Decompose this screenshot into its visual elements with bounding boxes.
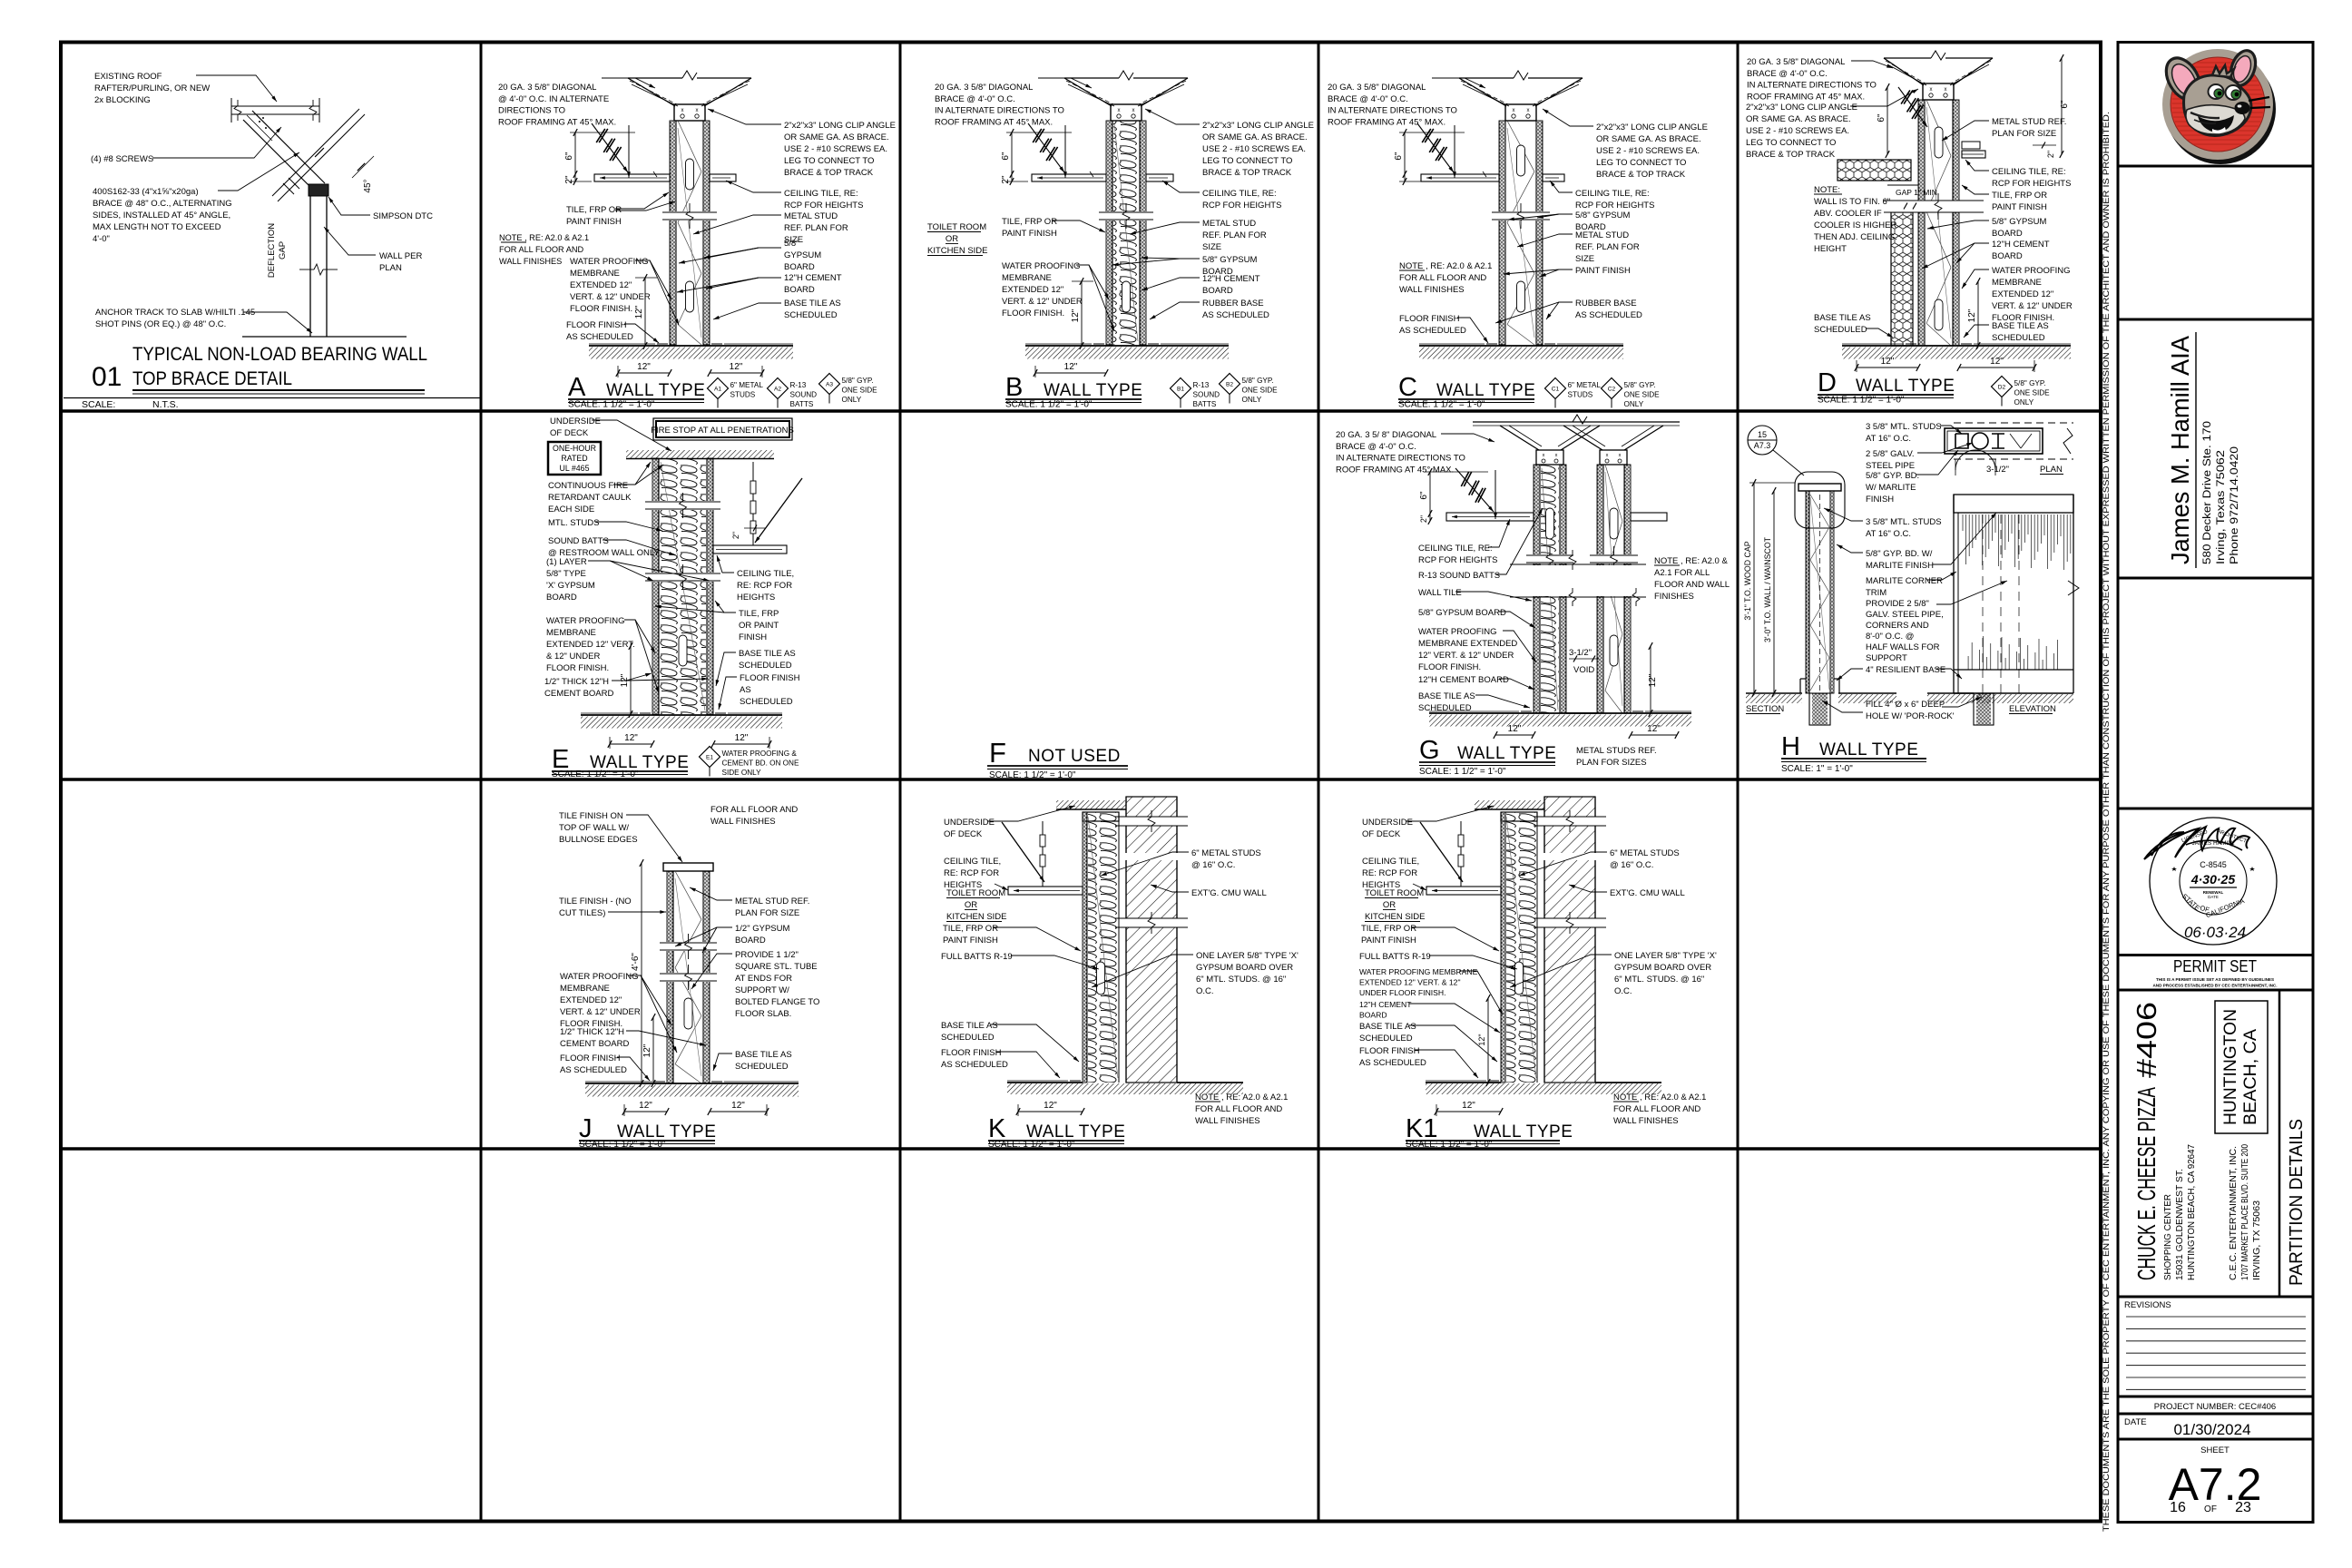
svg-text:EXISTING ROOF: EXISTING ROOF [94, 72, 162, 82]
svg-text:x: x [1513, 108, 1515, 113]
svg-text:MTL. STUDS: MTL. STUDS [548, 518, 599, 528]
svg-text:OF DECK: OF DECK [944, 829, 983, 839]
svg-text:DATE: DATE [2208, 895, 2219, 899]
svg-text:FINISH: FINISH [739, 632, 767, 642]
svg-text:12": 12" [620, 673, 630, 687]
svg-text:Irving, Texas 75062: Irving, Texas 75062 [2216, 450, 2227, 564]
svg-text:FLOOR FINISH.: FLOOR FINISH. [1002, 309, 1064, 318]
svg-text:NOTE , RE: A2.0 & A2.1: NOTE , RE: A2.0 & A2.1 [1613, 1093, 1706, 1102]
svg-text:LEG TO CONNECT TO: LEG TO CONNECT TO [784, 156, 874, 166]
svg-text:OR: OR [946, 234, 958, 244]
svg-text:BASE TILE AS: BASE TILE AS [735, 1050, 792, 1060]
svg-text:SCALE: 1 1/2" = 1'-0": SCALE: 1 1/2" = 1'-0" [1406, 1140, 1493, 1150]
svg-text:PLAN FOR SIZE: PLAN FOR SIZE [1992, 129, 2056, 139]
svg-text:TILE, FRP OR: TILE, FRP OR [1992, 191, 2047, 201]
svg-text:FOR ALL FLOOR AND: FOR ALL FLOOR AND [1613, 1104, 1700, 1114]
svg-text:G: G [1419, 736, 1440, 765]
svg-text:ROOF FRAMING AT 45° MAX.: ROOF FRAMING AT 45° MAX. [498, 117, 616, 127]
svg-text:USE 2 - #10 SCREWS EA.: USE 2 - #10 SCREWS EA. [784, 144, 887, 154]
svg-text:400S162-33 (4"x1⅝"x20ga): 400S162-33 (4"x1⅝"x20ga) [93, 187, 199, 197]
svg-text:CORNERS AND: CORNERS AND [1866, 621, 1929, 631]
svg-text:SOUND: SOUND [790, 391, 818, 399]
svg-text:& 12" UNDER: & 12" UNDER [546, 652, 600, 661]
svg-text:ONLY: ONLY [2014, 398, 2034, 407]
svg-text:BRACE @ 4'-0" O.C.: BRACE @ 4'-0" O.C. [1336, 442, 1416, 452]
svg-text:A1: A1 [714, 387, 721, 393]
svg-text:SHOT PINS (OR EQ.) @ 48" O.C.: SHOT PINS (OR EQ.) @ 48" O.C. [95, 319, 226, 329]
svg-text:12": 12" [731, 1101, 745, 1111]
svg-text:GYPSUM BOARD OVER: GYPSUM BOARD OVER [1614, 963, 1711, 973]
svg-text:NOT USED: NOT USED [1028, 747, 1121, 766]
svg-text:BOARD: BOARD [546, 593, 577, 603]
svg-text:AT 16" O.C.: AT 16" O.C. [1866, 529, 1911, 539]
svg-text:20 GA. 3 5/ 8" DIAGONAL: 20 GA. 3 5/ 8" DIAGONAL [1336, 430, 1436, 440]
svg-text:12": 12" [1648, 673, 1658, 687]
svg-text:#406: #406 [2131, 1002, 2162, 1078]
svg-text:ROOF FRAMING AT 45° MAX.: ROOF FRAMING AT 45° MAX. [1747, 92, 1865, 102]
svg-text:METAL STUDS REF.: METAL STUDS REF. [1576, 746, 1657, 756]
svg-text:EXT'G. CMU WALL: EXT'G. CMU WALL [1191, 888, 1267, 898]
svg-text:WALL IS TO FIN. 6": WALL IS TO FIN. 6" [1814, 197, 1890, 207]
svg-text:RETARDANT CAULK: RETARDANT CAULK [548, 493, 632, 503]
svg-text:WATER PROOFING: WATER PROOFING [560, 972, 639, 982]
svg-text:RE: RCP FOR: RE: RCP FOR [1362, 868, 1417, 878]
svg-text:6": 6" [1419, 491, 1429, 500]
svg-text:RCP FOR HEIGHTS: RCP FOR HEIGHTS [1575, 201, 1654, 211]
svg-text:USE 2 - #10 SCREWS EA.: USE 2 - #10 SCREWS EA. [1596, 146, 1700, 156]
svg-text:BASE TILE AS: BASE TILE AS [1359, 1022, 1416, 1032]
svg-text:ONLY: ONLY [1242, 396, 1262, 404]
svg-text:TILE, FRP: TILE, FRP [739, 609, 779, 619]
svg-text:SCHEDULED: SCHEDULED [1814, 325, 1867, 335]
svg-text:SCALE: 1 1/2" = 1'-0": SCALE: 1 1/2" = 1'-0" [988, 1140, 1075, 1150]
svg-text:CEILING TILE, RE:: CEILING TILE, RE: [784, 189, 858, 199]
svg-text:VERT. & 12" UNDER: VERT. & 12" UNDER [1002, 297, 1083, 307]
svg-text:R-13: R-13 [1193, 381, 1210, 389]
svg-text:SOUND: SOUND [1193, 391, 1220, 399]
svg-text:BOARD: BOARD [1992, 229, 2023, 239]
svg-text:FILL 4" Ø x 6" DEEP: FILL 4" Ø x 6" DEEP [1866, 700, 1945, 710]
svg-text:8'-0" O.C. @: 8'-0" O.C. @ [1866, 632, 1914, 642]
svg-text:H: H [1781, 732, 1800, 761]
svg-text:DATE: DATE [2124, 1417, 2147, 1427]
svg-text:@ 4'-0" O.C. IN ALTERNATE: @ 4'-0" O.C. IN ALTERNATE [498, 94, 609, 104]
svg-text:45°: 45° [363, 179, 373, 192]
svg-text:REF. PLAN FOR: REF. PLAN FOR [1575, 242, 1640, 252]
svg-text:5/8" GYP. BD. W/: 5/8" GYP. BD. W/ [1866, 549, 1933, 559]
svg-text:PARTITION DETAILS: PARTITION DETAILS [2287, 1119, 2307, 1286]
svg-text:TOILET ROOM: TOILET ROOM [946, 888, 1005, 898]
svg-text:SCHEDULED: SCHEDULED [1359, 1034, 1413, 1044]
svg-text:WALL TYPE: WALL TYPE [1819, 740, 1918, 759]
svg-text:SCHEDULED: SCHEDULED [941, 1033, 995, 1043]
svg-text:WALL TYPE: WALL TYPE [1044, 381, 1142, 400]
svg-text:THEN ADJ. CEILING.: THEN ADJ. CEILING. [1814, 232, 1897, 242]
svg-text:TOILET ROOM: TOILET ROOM [1365, 888, 1424, 898]
svg-text:ROOF FRAMING AT 45° MAX.: ROOF FRAMING AT 45° MAX. [1336, 465, 1454, 475]
svg-text:VERT. & 12" UNDER: VERT. & 12" UNDER [560, 1007, 641, 1017]
svg-text:6" MTL. STUDS. @ 16": 6" MTL. STUDS. @ 16" [1196, 975, 1286, 985]
svg-text:FLOOR FINISH.: FLOOR FINISH. [570, 304, 632, 314]
svg-text:12": 12" [1477, 1034, 1486, 1045]
svg-text:SIMPSON DTC: SIMPSON DTC [373, 211, 433, 221]
svg-text:KITCHEN SIDE: KITCHEN SIDE [946, 912, 1007, 922]
svg-text:WALL TYPE: WALL TYPE [1026, 1122, 1125, 1142]
svg-text:OR SAME GA. AS BRACE.: OR SAME GA. AS BRACE. [1202, 132, 1308, 142]
svg-text:WALL FINISHES: WALL FINISHES [1195, 1116, 1260, 1126]
svg-text:METAL STUD REF.: METAL STUD REF. [735, 897, 809, 906]
svg-text:BOARD: BOARD [784, 262, 815, 272]
svg-text:AS SCHEDULED: AS SCHEDULED [1399, 326, 1466, 336]
svg-text:CEILING TILE,: CEILING TILE, [737, 569, 794, 579]
svg-text:WALL TYPE: WALL TYPE [1436, 381, 1535, 400]
svg-text:ROOF FRAMING AT 45° MAX.: ROOF FRAMING AT 45° MAX. [935, 117, 1053, 127]
svg-text:BOARD: BOARD [1359, 1011, 1387, 1020]
svg-text:WALL TYPE: WALL TYPE [617, 1122, 716, 1142]
svg-text:5/8" GYP. BD.: 5/8" GYP. BD. [1866, 471, 1919, 481]
svg-text:HOLE W/ 'POR-ROCK': HOLE W/ 'POR-ROCK' [1866, 711, 1955, 721]
svg-text:FLOOR FINISH: FLOOR FINISH [566, 320, 627, 330]
svg-text:VERT. & 12" UNDER: VERT. & 12" UNDER [570, 292, 651, 302]
svg-text:OF DECK: OF DECK [550, 428, 589, 438]
svg-text:NOTE , RE: A2.0 &: NOTE , RE: A2.0 & [1654, 556, 1728, 566]
svg-text:AND PROCESS ESTABLISHED BY: AND PROCESS ESTABLISHED BY CEC ENTERTAIN… [2152, 984, 2277, 988]
svg-text:UNDERSIDE: UNDERSIDE [550, 416, 601, 426]
svg-text:TILE, FRP OR: TILE, FRP OR [943, 924, 998, 934]
svg-text:REF. PLAN FOR: REF. PLAN FOR [1202, 230, 1267, 240]
svg-text:EXT'G. CMU WALL: EXT'G. CMU WALL [1610, 888, 1685, 898]
svg-text:OF DECK: OF DECK [1362, 829, 1401, 839]
svg-text:BRACE & TOP TRACK: BRACE & TOP TRACK [1746, 150, 1836, 160]
svg-text:ONE LAYER 5/8" TYPE 'X': ONE LAYER 5/8" TYPE 'X' [1196, 951, 1298, 961]
svg-text:15031 GOLDENWEST ST.: 15031 GOLDENWEST ST. [2174, 1169, 2185, 1280]
svg-text:FLOOR FINISH: FLOOR FINISH [740, 673, 800, 683]
svg-text:1/2" THICK 12"H: 1/2" THICK 12"H [560, 1027, 624, 1037]
svg-text:RE: RCP FOR: RE: RCP FOR [737, 581, 792, 591]
svg-text:12": 12" [1647, 724, 1661, 734]
svg-text:BRACE & TOP TRACK: BRACE & TOP TRACK [1596, 170, 1686, 180]
svg-text:TILE FINISH ON: TILE FINISH ON [559, 811, 623, 821]
svg-text:CEILING TILE,: CEILING TILE, [944, 857, 1001, 867]
svg-text:BRACE @ 48" O.C., ALTERNATING: BRACE @ 48" O.C., ALTERNATING [93, 199, 232, 209]
svg-text:CONTINUOUS FIRE: CONTINUOUS FIRE [548, 481, 628, 491]
svg-text:MEMBRANE: MEMBRANE [560, 984, 610, 994]
svg-text:16: 16 [2170, 1500, 2186, 1515]
svg-text:4" RESILIENT BASE: 4" RESILIENT BASE [1866, 665, 1945, 675]
svg-text:WATER PROOFING: WATER PROOFING [1992, 266, 2071, 276]
svg-text:12": 12" [1508, 724, 1522, 734]
svg-text:ONLY: ONLY [842, 396, 862, 404]
svg-text:3'-0" T.O. WALL / WAINSCOT: 3'-0" T.O. WALL / WAINSCOT [1763, 536, 1772, 642]
svg-text:PAINT FINISH: PAINT FINISH [1002, 229, 1057, 239]
svg-text:WALL TYPE: WALL TYPE [1457, 744, 1556, 763]
svg-text:PLAN FOR SIZE: PLAN FOR SIZE [735, 908, 799, 918]
svg-text:SCALE: 1 1/2" = 1'-0": SCALE: 1 1/2" = 1'-0" [1398, 400, 1485, 410]
svg-text:CEILING TILE,: CEILING TILE, [1362, 857, 1419, 867]
svg-text:5/8" GYPSUM: 5/8" GYPSUM [1992, 217, 2046, 227]
svg-text:FINISHES: FINISHES [1654, 592, 1694, 602]
svg-text:20 GA. 3 5/8" DIAGONAL: 20 GA. 3 5/8" DIAGONAL [935, 83, 1033, 93]
svg-text:SCHEDULED: SCHEDULED [784, 310, 838, 320]
svg-text:CEMENT BD. ON ONE: CEMENT BD. ON ONE [722, 759, 799, 768]
svg-text:RE: RCP FOR: RE: RCP FOR [944, 868, 999, 878]
svg-text:COOLER IS HIGHER: COOLER IS HIGHER [1814, 220, 1896, 230]
svg-text:OR SAME GA. AS BRACE.: OR SAME GA. AS BRACE. [1746, 114, 1851, 124]
svg-text:SOUND BATTS: SOUND BATTS [548, 536, 609, 546]
svg-text:REVISIONS: REVISIONS [2124, 1300, 2171, 1310]
svg-text:VOID: VOID [1573, 665, 1594, 675]
svg-text:x: x [1543, 453, 1545, 458]
svg-text:C1: C1 [1552, 387, 1560, 393]
svg-text:12"H CEMENT BOARD: 12"H CEMENT BOARD [1418, 675, 1509, 685]
svg-text:SCHEDULED: SCHEDULED [1992, 333, 2045, 343]
svg-text:20 GA. 3 5/8" DIAGONAL: 20 GA. 3 5/8" DIAGONAL [1328, 83, 1426, 93]
svg-text:2": 2" [1419, 515, 1428, 523]
svg-text:SCALE: 1 1/2" = 1'-0": SCALE: 1 1/2" = 1'-0" [989, 770, 1076, 780]
svg-text:01: 01 [92, 362, 122, 392]
svg-text:PLAN: PLAN [379, 263, 402, 273]
svg-text:TOILET ROOM: TOILET ROOM [927, 222, 986, 232]
svg-text:x: x [1555, 453, 1558, 458]
svg-text:5/8" GYP.: 5/8" GYP. [842, 377, 874, 385]
svg-text:B: B [1005, 373, 1023, 402]
svg-text:RUBBER BASE: RUBBER BASE [1575, 299, 1637, 309]
svg-text:C2: C2 [1608, 387, 1616, 393]
svg-text:MARLITE CORNER: MARLITE CORNER [1866, 576, 1943, 586]
svg-text:6": 6" [1877, 113, 1886, 122]
svg-text:BASE TILE AS: BASE TILE AS [941, 1021, 998, 1031]
svg-text:GALV. STEEL PIPE,: GALV. STEEL PIPE, [1866, 610, 1944, 620]
svg-text:DIRECTIONS TO: DIRECTIONS TO [498, 106, 565, 116]
svg-text:FOR ALL FLOOR AND: FOR ALL FLOOR AND [499, 245, 583, 254]
svg-text:12": 12" [1064, 362, 1078, 372]
svg-text:2": 2" [564, 175, 574, 184]
svg-text:PLAN FOR SIZES: PLAN FOR SIZES [1576, 758, 1647, 768]
svg-text:RAFTER/PURLING, OR NEW: RAFTER/PURLING, OR NEW [94, 83, 210, 93]
svg-text:FULL BATTS R-19: FULL BATTS R-19 [941, 952, 1013, 962]
svg-text:2"x2"x3" LONG CLIP ANGLE: 2"x2"x3" LONG CLIP ANGLE [1202, 121, 1314, 131]
svg-text:IN ALTERNATE DIRECTIONS TO: IN ALTERNATE DIRECTIONS TO [1336, 454, 1465, 464]
svg-text:NOTE:: NOTE: [1814, 185, 1840, 195]
svg-text:WATER PROOFING MEMBRANE: WATER PROOFING MEMBRANE [1359, 967, 1478, 976]
svg-text:TYPICAL NON-LOAD BEARING WALL: TYPICAL NON-LOAD BEARING WALL [132, 344, 427, 365]
svg-text:2": 2" [2046, 151, 2055, 158]
svg-text:6" METAL: 6" METAL [730, 381, 764, 389]
svg-text:PLAN: PLAN [2040, 465, 2063, 475]
svg-text:SCALE: 1 1/2" = 1'-0": SCALE: 1 1/2" = 1'-0" [1419, 767, 1506, 777]
svg-text:BATTS: BATTS [790, 400, 814, 408]
svg-text:BASE TILE AS: BASE TILE AS [739, 649, 796, 659]
svg-text:SCALE: 1 1/2" = 1'-0": SCALE: 1 1/2" = 1'-0" [1818, 396, 1905, 406]
svg-text:TILE, FRP OR: TILE, FRP OR [566, 205, 622, 215]
svg-text:EXTENDED 12" VERT.: EXTENDED 12" VERT. [546, 640, 635, 650]
svg-text:PROVIDE 1 1/2": PROVIDE 1 1/2" [735, 950, 799, 960]
svg-text:EXTENDED 12": EXTENDED 12" [1002, 285, 1063, 295]
svg-text:'X' GYPSUM: 'X' GYPSUM [546, 581, 595, 591]
svg-text:USE 2 - #10 SCREWS EA.: USE 2 - #10 SCREWS EA. [1202, 144, 1306, 154]
svg-text:AS SCHEDULED: AS SCHEDULED [1202, 310, 1269, 320]
svg-text:3-1/2": 3-1/2" [1569, 648, 1592, 658]
svg-text:SIDE ONLY: SIDE ONLY [722, 769, 762, 777]
svg-text:MARLITE FINISH: MARLITE FINISH [1866, 561, 1934, 571]
svg-text:LEG TO CONNECT TO: LEG TO CONNECT TO [1596, 158, 1686, 168]
svg-text:GAP 1" MIN.: GAP 1" MIN. [1896, 188, 1939, 197]
svg-text:FLOOR SLAB.: FLOOR SLAB. [735, 1009, 791, 1019]
svg-text:STEEL PIPE: STEEL PIPE [1866, 461, 1915, 471]
svg-text:12"H CEMENT: 12"H CEMENT [1202, 274, 1260, 284]
svg-text:6": 6" [564, 152, 574, 161]
svg-text:FIRE STOP AT ALL PENETRATIONS: FIRE STOP AT ALL PENETRATIONS [651, 426, 794, 436]
svg-text:WALL FINISHES: WALL FINISHES [1399, 285, 1465, 295]
svg-text:1/2" GYPSUM: 1/2" GYPSUM [735, 924, 789, 934]
svg-text:LEG TO CONNECT TO: LEG TO CONNECT TO [1202, 156, 1292, 166]
svg-text:6": 6" [2060, 100, 2070, 109]
svg-text:OR PAINT: OR PAINT [739, 621, 779, 631]
svg-text:RCP FOR HEIGHTS: RCP FOR HEIGHTS [784, 201, 863, 211]
svg-text:METAL STUD: METAL STUD [1202, 219, 1256, 229]
svg-text:(4) #8 SCREWS: (4) #8 SCREWS [91, 154, 153, 164]
svg-text:BASE TILE AS: BASE TILE AS [1814, 313, 1871, 323]
svg-text:CEMENT BOARD: CEMENT BOARD [544, 689, 614, 699]
svg-text:SCALE: 1" = 1'-0": SCALE: 1" = 1'-0" [1781, 764, 1853, 774]
svg-text:PAINT FINISH: PAINT FINISH [1575, 266, 1631, 276]
svg-text:FLOOR FINISH: FLOOR FINISH [560, 1053, 621, 1063]
svg-text:6" METAL: 6" METAL [1568, 381, 1602, 389]
svg-text:STUDS: STUDS [730, 391, 756, 399]
svg-text:GYPSUM BOARD OVER: GYPSUM BOARD OVER [1196, 963, 1293, 973]
svg-text:WATER PROOFING &: WATER PROOFING & [722, 750, 798, 758]
svg-text:BOARD: BOARD [784, 285, 815, 295]
svg-text:LEG TO CONNECT TO: LEG TO CONNECT TO [1746, 138, 1836, 148]
svg-text:TILE, FRP OR: TILE, FRP OR [1002, 217, 1057, 227]
svg-text:PROJECT NUMBER: CEC#406: PROJECT NUMBER: CEC#406 [2154, 1402, 2276, 1412]
svg-text:x: x [1527, 108, 1530, 113]
svg-text:@ 16" O.C.: @ 16" O.C. [1610, 860, 1653, 870]
svg-text:VERT. & 12" UNDER: VERT. & 12" UNDER [1992, 301, 2073, 311]
svg-text:THIS IS A PERMIT ISSUE SET AS: THIS IS A PERMIT ISSUE SET AS DEFINED BY… [2156, 977, 2274, 982]
svg-text:MEMBRANE: MEMBRANE [1992, 278, 2042, 288]
svg-text:EXTENDED 12": EXTENDED 12" [560, 995, 622, 1005]
svg-text:R-13 SOUND BATTS: R-13 SOUND BATTS [1418, 571, 1500, 581]
svg-text:BASE TILE AS: BASE TILE AS [784, 299, 841, 309]
svg-text:6" MTL. STUDS. @ 16": 6" MTL. STUDS. @ 16" [1614, 975, 1704, 985]
svg-text:BASE TILE AS: BASE TILE AS [1992, 321, 2049, 331]
svg-text:Phone 972/714.0420: Phone 972/714.0420 [2229, 446, 2240, 564]
svg-text:x: x [696, 108, 699, 113]
svg-text:WATER PROOFING: WATER PROOFING [546, 616, 625, 626]
svg-text:1/2" THICK 12"H: 1/2" THICK 12"H [544, 677, 609, 687]
svg-text:12"H CEMENT: 12"H CEMENT [1992, 240, 2050, 250]
svg-text:CHUCK E. CHEESE PIZZA: CHUCK E. CHEESE PIZZA [2132, 1087, 2161, 1280]
svg-text:RCP FOR HEIGHTS: RCP FOR HEIGHTS [1992, 179, 2071, 189]
svg-text:GYPSUM: GYPSUM [784, 250, 821, 260]
svg-text:TOP BRACE DETAIL: TOP BRACE DETAIL [132, 368, 292, 389]
svg-text:IN ALTERNATE DIRECTIONS TO: IN ALTERNATE DIRECTIONS TO [1328, 106, 1457, 116]
svg-text:x: x [1118, 108, 1121, 113]
svg-text:CUT TILES): CUT TILES) [559, 908, 605, 918]
svg-text:BRACE @ 4'-0" O.C.: BRACE @ 4'-0" O.C. [935, 94, 1015, 104]
svg-text:FLOOR AND WALL: FLOOR AND WALL [1654, 580, 1730, 590]
svg-text:6": 6" [1394, 152, 1404, 161]
svg-text:PROVIDE 2 5/8": PROVIDE 2 5/8" [1866, 599, 1929, 609]
svg-text:12": 12" [735, 733, 749, 743]
svg-text:TILE FINISH - (NO: TILE FINISH - (NO [559, 897, 632, 906]
svg-text:STUDS: STUDS [1568, 391, 1593, 399]
svg-text:METAL STUD: METAL STUD [1575, 230, 1629, 240]
svg-text:WALL FINISHES: WALL FINISHES [710, 817, 776, 827]
svg-text:ABV. COOLER IF: ABV. COOLER IF [1814, 209, 1882, 219]
svg-text:FULL BATTS R-19: FULL BATTS R-19 [1359, 952, 1431, 962]
svg-text:SCHEDULED: SCHEDULED [739, 661, 792, 671]
svg-text:ROOF FRAMING AT 45° MAX.: ROOF FRAMING AT 45° MAX. [1328, 117, 1445, 127]
svg-text:x: x [1606, 453, 1609, 458]
svg-text:WATER PROOFING: WATER PROOFING [570, 257, 649, 267]
svg-text:RUBBER BASE: RUBBER BASE [1202, 299, 1264, 309]
svg-text:ONE-HOUR: ONE-HOUR [553, 444, 596, 453]
svg-text:ONE SIDE: ONE SIDE [1624, 391, 1661, 399]
svg-text:3'-1" T.O. WOOD CAP: 3'-1" T.O. WOOD CAP [1743, 541, 1752, 620]
svg-text:REF. PLAN FOR: REF. PLAN FOR [784, 223, 848, 233]
svg-text:6" METAL STUDS: 6" METAL STUDS [1191, 848, 1261, 858]
svg-text:W/ MARLITE: W/ MARLITE [1866, 483, 1916, 493]
svg-text:AS SCHEDULED: AS SCHEDULED [941, 1060, 1008, 1070]
svg-text:James M. Hamill AIA: James M. Hamill AIA [2166, 336, 2194, 564]
svg-text:@ 16" O.C.: @ 16" O.C. [1191, 860, 1235, 870]
svg-text:MEMBRANE: MEMBRANE [546, 628, 596, 638]
svg-text:CEMENT BOARD: CEMENT BOARD [560, 1039, 630, 1049]
svg-text:5/8" GYPSUM: 5/8" GYPSUM [1202, 255, 1257, 265]
svg-text:2 5/8" GALV.: 2 5/8" GALV. [1866, 449, 1915, 459]
svg-text:20 GA. 3 5/8" DIAGONAL: 20 GA. 3 5/8" DIAGONAL [498, 83, 596, 93]
svg-text:THESE DOCUMENTS ARE THE SOLE P: THESE DOCUMENTS ARE THE SOLE PROPERTY OF… [2102, 112, 2112, 1532]
svg-text:BRACE @ 4'-0" O.C.: BRACE @ 4'-0" O.C. [1328, 94, 1408, 104]
svg-text:METAL STUD: METAL STUD [784, 211, 838, 221]
svg-text:HEIGHTS: HEIGHTS [737, 593, 775, 603]
svg-text:UNDERSIDE: UNDERSIDE [944, 818, 995, 828]
svg-text:15: 15 [1758, 430, 1767, 439]
svg-text:12" VERT. & 12" UNDER: 12" VERT. & 12" UNDER [1418, 651, 1514, 661]
svg-text:12": 12" [1967, 309, 1977, 322]
svg-text:NOTE , RE: A2.0 & A2.1: NOTE , RE: A2.0 & A2.1 [1399, 261, 1492, 271]
svg-text:KITCHEN SIDE: KITCHEN SIDE [927, 246, 988, 256]
svg-text:AS SCHEDULED: AS SCHEDULED [1575, 310, 1642, 320]
svg-text:C.E.C. ENTERTAINMENT, INC.: C.E.C. ENTERTAINMENT, INC. [2228, 1146, 2239, 1280]
svg-text:C-8545: C-8545 [2200, 860, 2227, 869]
svg-text:12": 12" [637, 362, 651, 372]
svg-text:CEILING TILE, RE:: CEILING TILE, RE: [1992, 167, 2066, 177]
svg-text:SCALE: 1 1/2" = 1'-0": SCALE: 1 1/2" = 1'-0" [579, 1140, 666, 1150]
svg-text:FOR ALL FLOOR AND: FOR ALL FLOOR AND [710, 805, 798, 815]
svg-text:(1) LAYER: (1) LAYER [546, 557, 587, 567]
svg-text:HUNTINGTON BEACH, CA 92647: HUNTINGTON BEACH, CA 92647 [2186, 1144, 2197, 1280]
svg-text:6": 6" [1001, 152, 1011, 161]
svg-text:R-13: R-13 [790, 381, 807, 389]
svg-text:SQUARE STL. TUBE: SQUARE STL. TUBE [735, 962, 818, 972]
svg-text:BOARD: BOARD [1202, 286, 1233, 296]
svg-text:12": 12" [634, 305, 644, 318]
svg-text:01/30/2024: 01/30/2024 [2173, 1421, 2250, 1438]
svg-text:BOARD: BOARD [1992, 251, 2023, 261]
svg-text:A: A [568, 373, 586, 402]
svg-text:FLOOR FINISH: FLOOR FINISH [941, 1048, 1002, 1058]
svg-text:OF: OF [2204, 1504, 2217, 1514]
svg-text:SIZE: SIZE [1575, 254, 1594, 264]
svg-text:5/8" GYPSUM: 5/8" GYPSUM [1575, 211, 1630, 220]
svg-text:SECTION: SECTION [1746, 704, 1784, 714]
svg-text:UNDERSIDE: UNDERSIDE [1362, 818, 1413, 828]
svg-text:TILE, FRP OR: TILE, FRP OR [1361, 924, 1416, 934]
svg-text:ONE SIDE: ONE SIDE [842, 387, 878, 395]
